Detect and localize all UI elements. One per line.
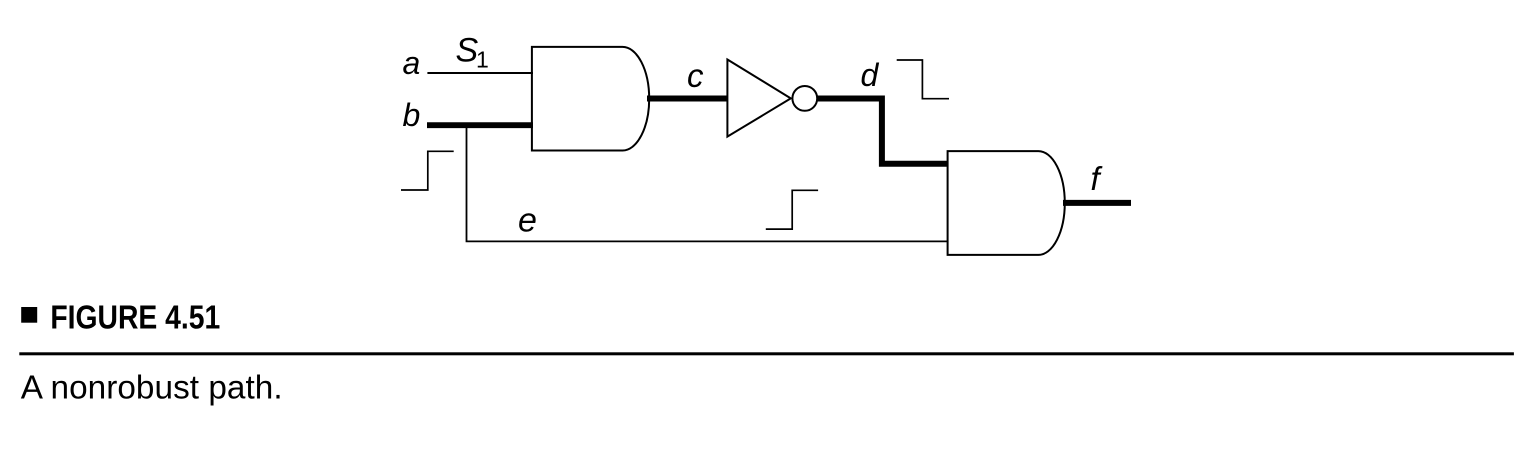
- rising edge waveform at e: [766, 190, 818, 229]
- net label S1: [456, 31, 489, 72]
- figure caption title: [50, 298, 220, 336]
- svg-text:A nonrobust path.: A nonrobust path.: [21, 369, 283, 406]
- node label d: [861, 57, 880, 93]
- svg-text:a: a: [403, 45, 421, 81]
- svg-text:e: e: [518, 202, 537, 240]
- inverter U2 triangle: [727, 60, 790, 137]
- AND gate U1: [532, 47, 649, 151]
- input label b: [403, 97, 421, 133]
- horizontal rule: [19, 352, 1514, 355]
- figure caption square bullet: [21, 307, 37, 323]
- svg-text:1: 1: [476, 47, 489, 73]
- wire e (branch from b, vertical + horizontal to U3): [467, 123, 949, 241]
- figure caption text: [21, 369, 283, 406]
- node label c: [687, 57, 704, 94]
- svg-text:FIGURE 4.51: FIGURE 4.51: [50, 298, 220, 336]
- wire b (thick): [427, 122, 533, 128]
- wire f (thick output): [1063, 200, 1131, 206]
- input label a: [403, 45, 421, 81]
- wire d (thick, bubble to AND gate U3): [818, 99, 948, 164]
- output label f: [1091, 160, 1104, 197]
- svg-text:d: d: [861, 57, 880, 93]
- svg-text:f: f: [1091, 160, 1104, 197]
- falling edge waveform at d: [897, 60, 949, 99]
- wire a: [427, 72, 533, 74]
- inverter U2 bubble: [792, 86, 817, 111]
- rising edge waveform at b: [401, 151, 454, 190]
- AND gate U3: [948, 151, 1065, 255]
- wire c (thick): [647, 96, 728, 102]
- net label e: [518, 202, 537, 240]
- svg-text:b: b: [403, 97, 421, 133]
- svg-text:c: c: [687, 57, 704, 94]
